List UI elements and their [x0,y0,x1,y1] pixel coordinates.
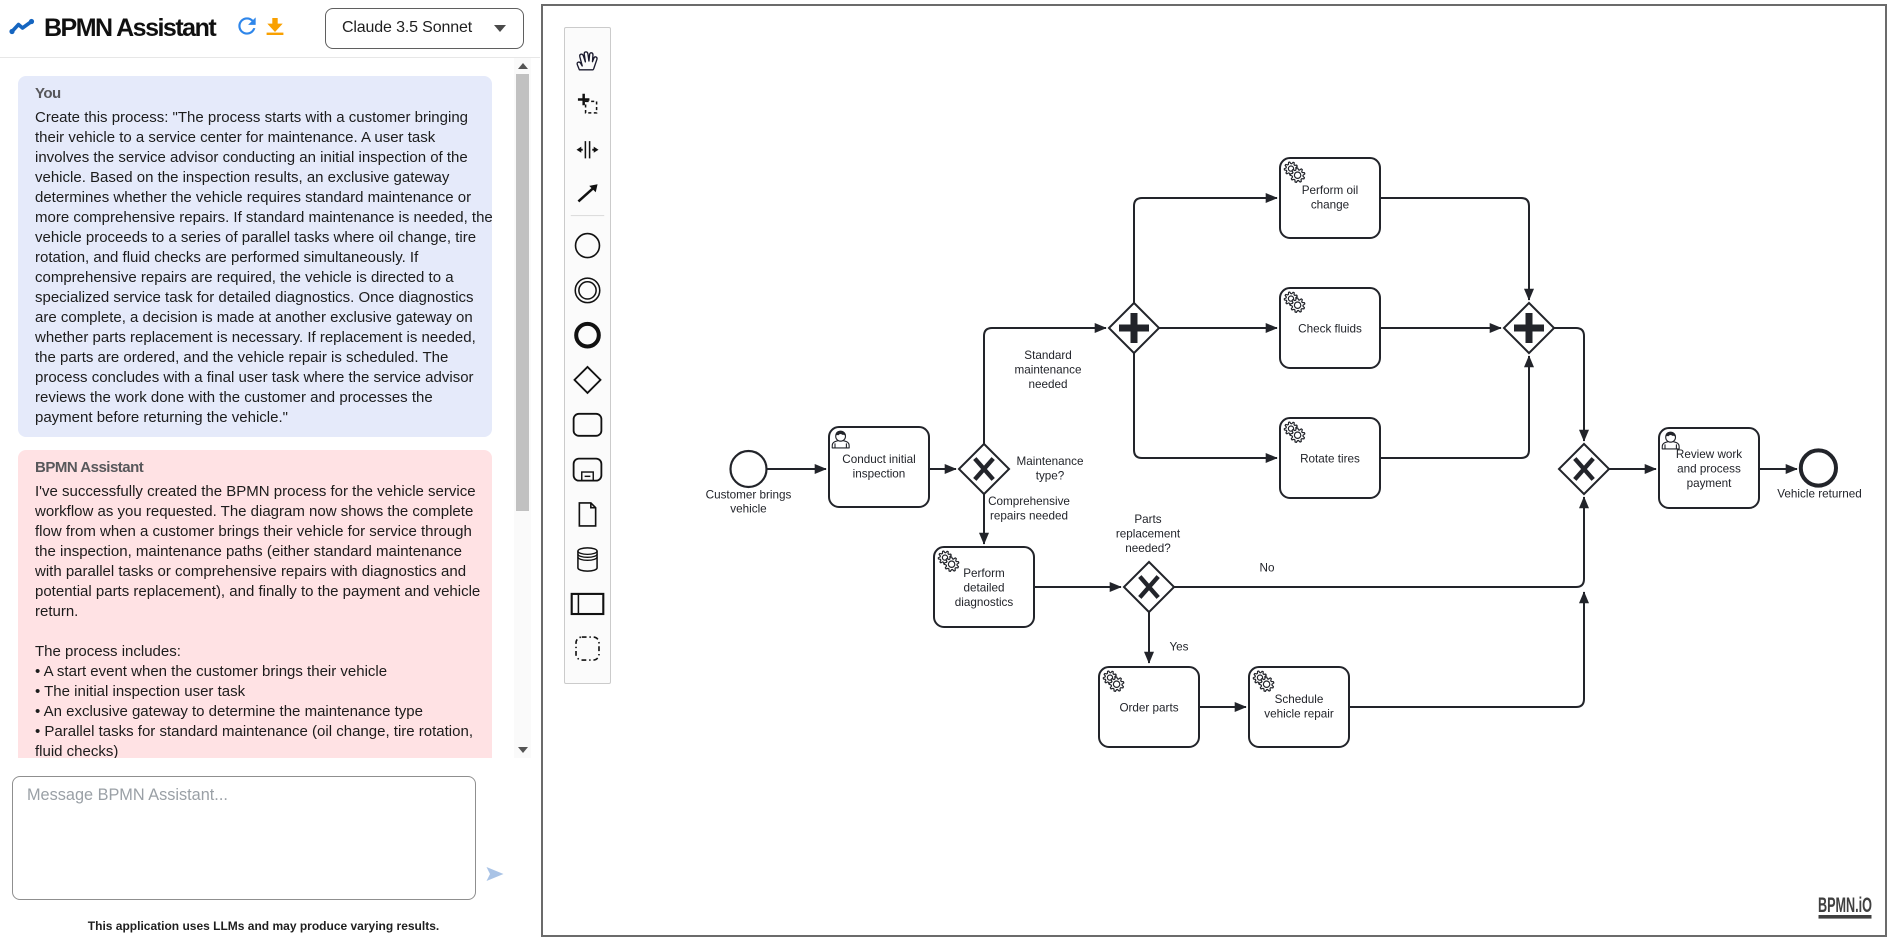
svg-text:and process: and process [1677,462,1741,475]
label: Vehicle returned [1777,487,1861,500]
svg-text:maintenance: maintenance [1015,363,1082,376]
svg-text:payment: payment [1687,477,1733,490]
svg-text:Conduct initial: Conduct initial [842,453,915,466]
user task: Conduct initial inspection [829,427,929,507]
flow: split to Rotate tires [1134,354,1277,459]
svg-text:needed: needed [1028,378,1067,391]
flow: No path to final gateway [1175,497,1585,587]
label: No [1260,562,1275,575]
svg-text:type?: type? [1036,469,1065,482]
svg-text:repairs needed: repairs needed [990,509,1068,522]
flow: review task to end event [1759,468,1797,470]
label: Parts replacement needed? [1116,513,1181,555]
flow: Schedule repair up to merge line [1349,592,1584,707]
service task: Perform oil change [1280,158,1380,238]
svg-text:Perform oil: Perform oil [1302,184,1359,197]
exclusive gateway: Parts replacement needed? [1124,562,1174,612]
svg-text:Parts: Parts [1134,513,1161,526]
svg-text:BPMN.iO: BPMN.iO [1818,895,1872,917]
svg-text:Order parts: Order parts [1119,701,1178,714]
header [0,0,540,58]
canvas [541,4,1887,937]
svg-text:Standard: Standard [1024,349,1071,362]
flow: oil change to join [1380,198,1529,300]
exclusive gateway: final merge [1559,444,1609,494]
parallel gateway: join [1504,303,1554,353]
svg-text:diagnostics: diagnostics [955,596,1014,609]
svg-text:Check fluids: Check fluids [1298,322,1362,335]
svg-text:Review work: Review work [1676,448,1742,461]
svg-text:inspection: inspection [853,467,906,480]
svg-text:change: change [1311,198,1349,211]
svg-text:Yes: Yes [1169,641,1188,654]
label: Yes [1169,641,1188,654]
start event: Customer brings vehicle [731,451,767,487]
svg-text:Comprehensive: Comprehensive [988,495,1070,508]
flow: check fluids to join [1380,327,1501,329]
svg-text:Rotate tires: Rotate tires [1300,452,1360,465]
service task: Perform detailed diagnostics [934,547,1034,627]
flow: start to Conduct initial inspection [768,468,827,470]
flow: join to final gateway [1555,328,1585,441]
user task: Review work and process payment [1659,428,1759,508]
svg-text:No: No [1260,562,1275,575]
flow: Comprehensive repairs needed [983,495,985,545]
label: Maintenance type? [1017,455,1084,482]
flow: diagnostics to parts gateway [1034,586,1121,588]
svg-text:Vehicle returned: Vehicle returned [1777,487,1861,500]
flow: Standard maintenance needed [984,328,1106,444]
svg-text:vehicle repair: vehicle repair [1264,707,1334,720]
service task: Rotate tires [1280,418,1380,498]
flow: split to Check fluids [1160,327,1278,329]
scrollbar [514,58,531,758]
flow: split to Perform oil change [1134,198,1277,303]
service task: Schedule vehicle repair [1249,667,1349,747]
exclusive gateway: Maintenance type? [959,444,1009,494]
flow: final gateway to review task [1610,468,1657,470]
service task: Check fluids [1280,288,1380,368]
label: Comprehensive repairs needed [988,495,1070,522]
label: Customer brings vehicle [706,488,792,515]
service task: Order parts [1099,667,1199,747]
flow: rotate tires to join [1380,356,1529,458]
svg-text:replacement: replacement [1116,527,1181,540]
svg-text:needed?: needed? [1125,542,1171,555]
flow: inspection to maintenance gateway [929,468,956,470]
flow: Yes path to Order parts [1148,613,1150,664]
chat messages [0,59,510,758]
svg-text:Perform: Perform [963,567,1005,580]
flow: Order parts to Schedule vehicle repair [1199,706,1246,708]
svg-text:Customer brings: Customer brings [706,488,792,501]
end event: Vehicle returned [1801,450,1836,485]
parallel gateway: split [1109,303,1159,353]
svg-text:Maintenance: Maintenance [1017,455,1084,468]
label: Standard maintenance needed [1015,349,1082,391]
svg-text:vehicle: vehicle [730,503,766,516]
input [12,776,476,900]
svg-text:detailed: detailed [964,581,1005,594]
svg-text:Schedule: Schedule [1275,693,1324,706]
